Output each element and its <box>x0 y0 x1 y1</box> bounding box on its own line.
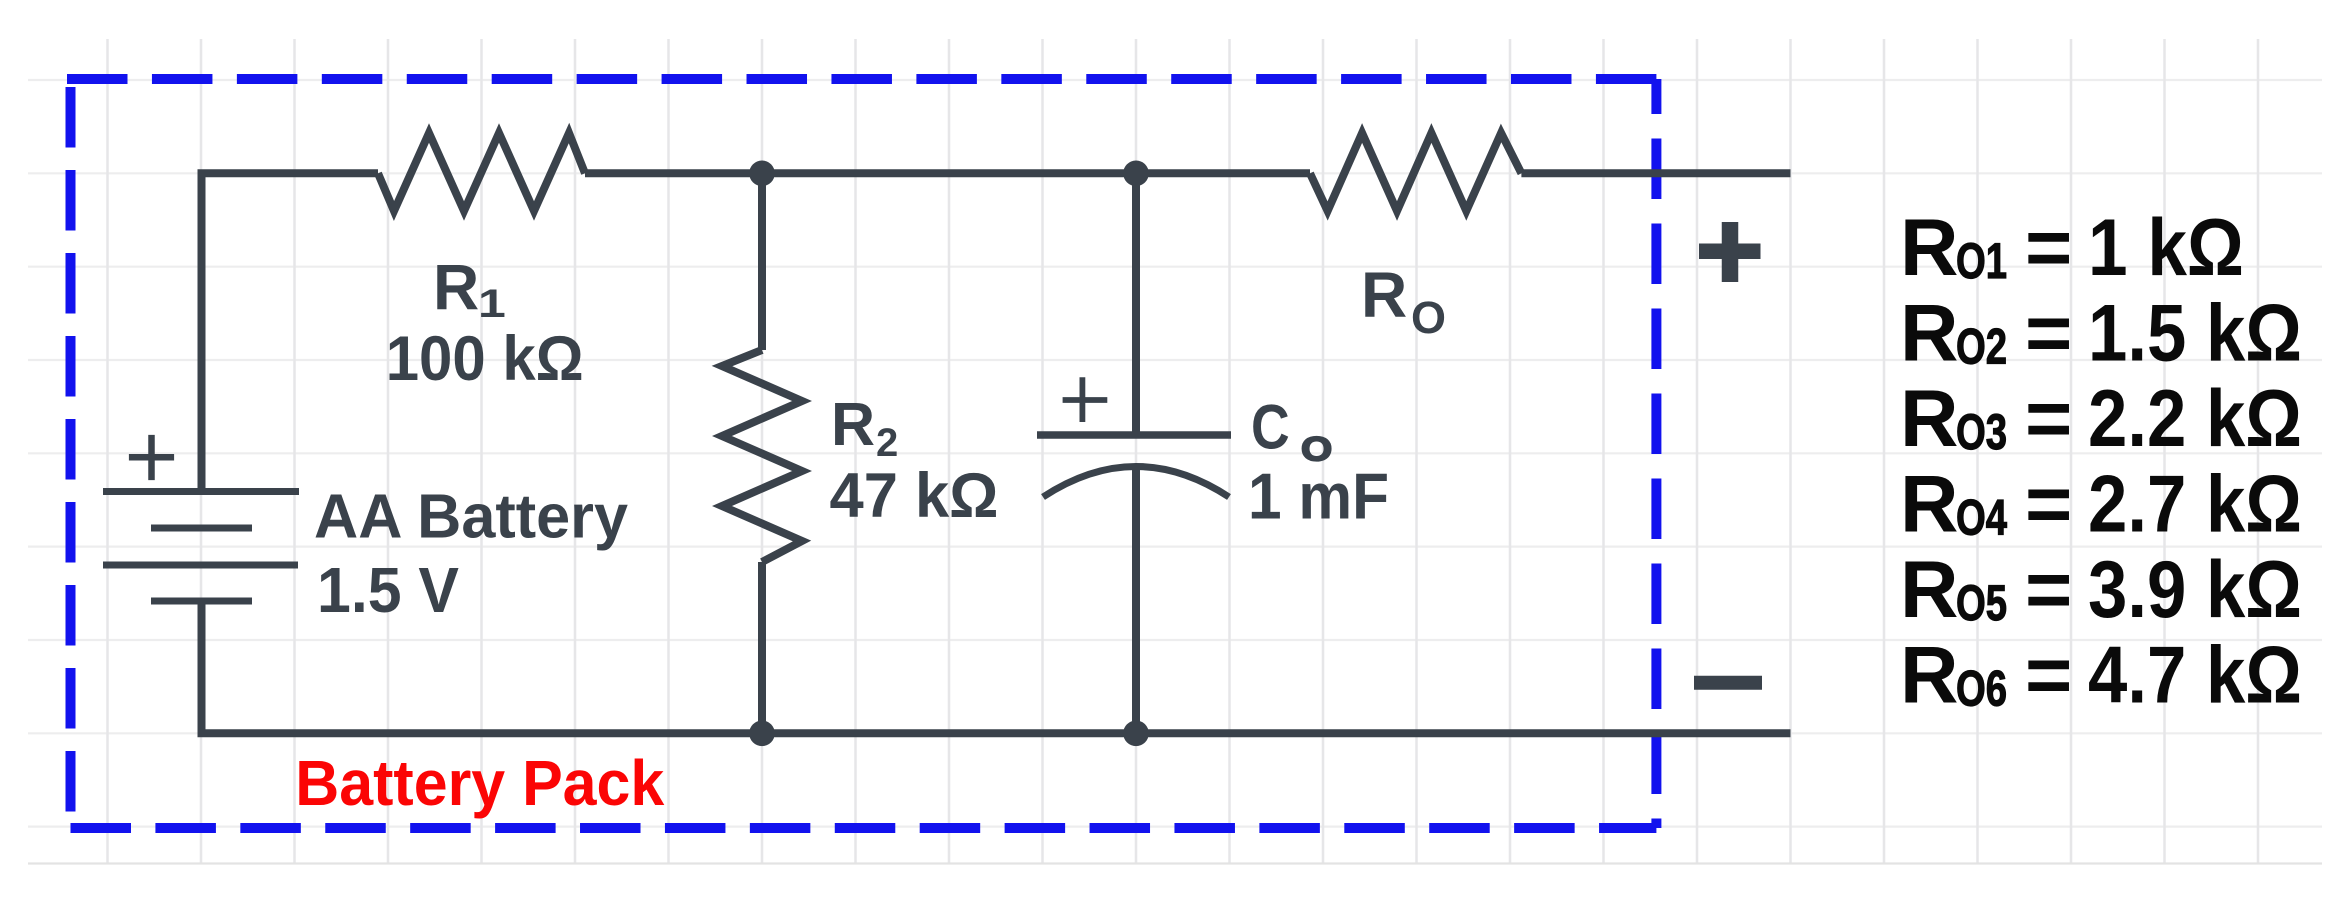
wire: R2 branch top <box>758 173 766 350</box>
svg-text:O5: O5 <box>1956 576 2007 631</box>
svg-text:1: 1 <box>478 281 506 326</box>
wire: battery positive lead up and top rail to R1 <box>202 173 379 488</box>
svg-text:1 mF: 1 mF <box>1248 460 1389 533</box>
svg-text:4.7 kΩ: 4.7 kΩ <box>2088 631 2302 721</box>
svg-text:2.2 kΩ: 2.2 kΩ <box>2088 374 2302 464</box>
svg-text:O1: O1 <box>1956 234 2007 289</box>
svg-text:R: R <box>1361 259 1407 331</box>
battery + polarity mark <box>129 435 174 480</box>
svg-text:Battery Pack: Battery Pack <box>295 747 664 819</box>
svg-text:R: R <box>1900 460 1959 550</box>
svg-text:=: = <box>2025 460 2072 550</box>
wire: Co branch top <box>1132 173 1140 433</box>
label RO4 = 2.7 kohm <box>1900 460 2302 550</box>
wire: R2 branch bottom <box>758 562 766 733</box>
label RO1 = 1 kohm <box>1900 203 2244 293</box>
svg-text:=: = <box>2025 631 2072 721</box>
label RO6 = 4.7 kohm <box>1900 631 2302 721</box>
battery pack boundary box (dashed) <box>67 79 1656 828</box>
svg-text:O2: O2 <box>1956 320 2007 375</box>
resistor R1 <box>378 133 585 211</box>
wire: Co branch bottom <box>1132 464 1140 733</box>
svg-text:100 kΩ: 100 kΩ <box>386 324 584 394</box>
resistor Ro <box>1310 133 1521 211</box>
svg-text:O6: O6 <box>1956 662 2007 717</box>
svg-text:1.5 V: 1.5 V <box>317 554 459 626</box>
svg-text:R: R <box>1900 289 1959 379</box>
node: R2 top junction <box>749 161 775 187</box>
svg-text:O: O <box>1411 292 1446 343</box>
svg-text:R: R <box>1900 545 1959 635</box>
svg-text:R: R <box>1900 374 1959 464</box>
svg-text:R: R <box>1900 631 1959 721</box>
svg-text:AA Battery: AA Battery <box>314 483 629 552</box>
svg-text:R: R <box>831 390 875 458</box>
wire: top rail Ro to + output <box>1521 169 1790 177</box>
svg-text:47 kΩ: 47 kΩ <box>830 461 999 531</box>
svg-text:R: R <box>433 252 479 324</box>
label RO2 = 1.5 kohm <box>1900 289 2302 379</box>
svg-text:O3: O3 <box>1956 405 2007 460</box>
wire: battery negative lead down and bottom rail <box>202 604 1791 733</box>
svg-text:1 kΩ: 1 kΩ <box>2088 203 2244 293</box>
battery B1 (AA, two cells) <box>103 492 299 602</box>
svg-text:2.7 kΩ: 2.7 kΩ <box>2088 460 2302 550</box>
svg-text:=: = <box>2025 289 2072 379</box>
node: R2 bottom junction <box>749 721 775 747</box>
label RO5 = 3.9 kohm <box>1900 545 2302 635</box>
output + terminal <box>1699 222 1761 282</box>
svg-text:O4: O4 <box>1956 491 2007 546</box>
node: Co top junction <box>1123 161 1149 187</box>
capacitor Co top plate <box>1037 431 1231 439</box>
svg-text:=: = <box>2025 203 2072 293</box>
svg-text:3.9 kΩ: 3.9 kΩ <box>2088 545 2302 635</box>
svg-text:R: R <box>1900 203 1959 293</box>
capacitor + polarity mark <box>1063 377 1108 422</box>
capacitor Co curved plate <box>1043 467 1229 498</box>
node: Co bottom junction <box>1123 721 1149 747</box>
resistor R2 <box>722 350 802 562</box>
svg-text:=: = <box>2025 545 2072 635</box>
svg-text:C: C <box>1251 392 1290 462</box>
svg-text:2: 2 <box>876 421 898 465</box>
label RO3 = 2.2 kohm <box>1900 374 2302 464</box>
svg-text:=: = <box>2025 374 2072 464</box>
wire: top rail R1 to Ro <box>585 169 1310 177</box>
svg-text:1.5 kΩ: 1.5 kΩ <box>2088 289 2302 379</box>
output - terminal <box>1694 676 1762 690</box>
